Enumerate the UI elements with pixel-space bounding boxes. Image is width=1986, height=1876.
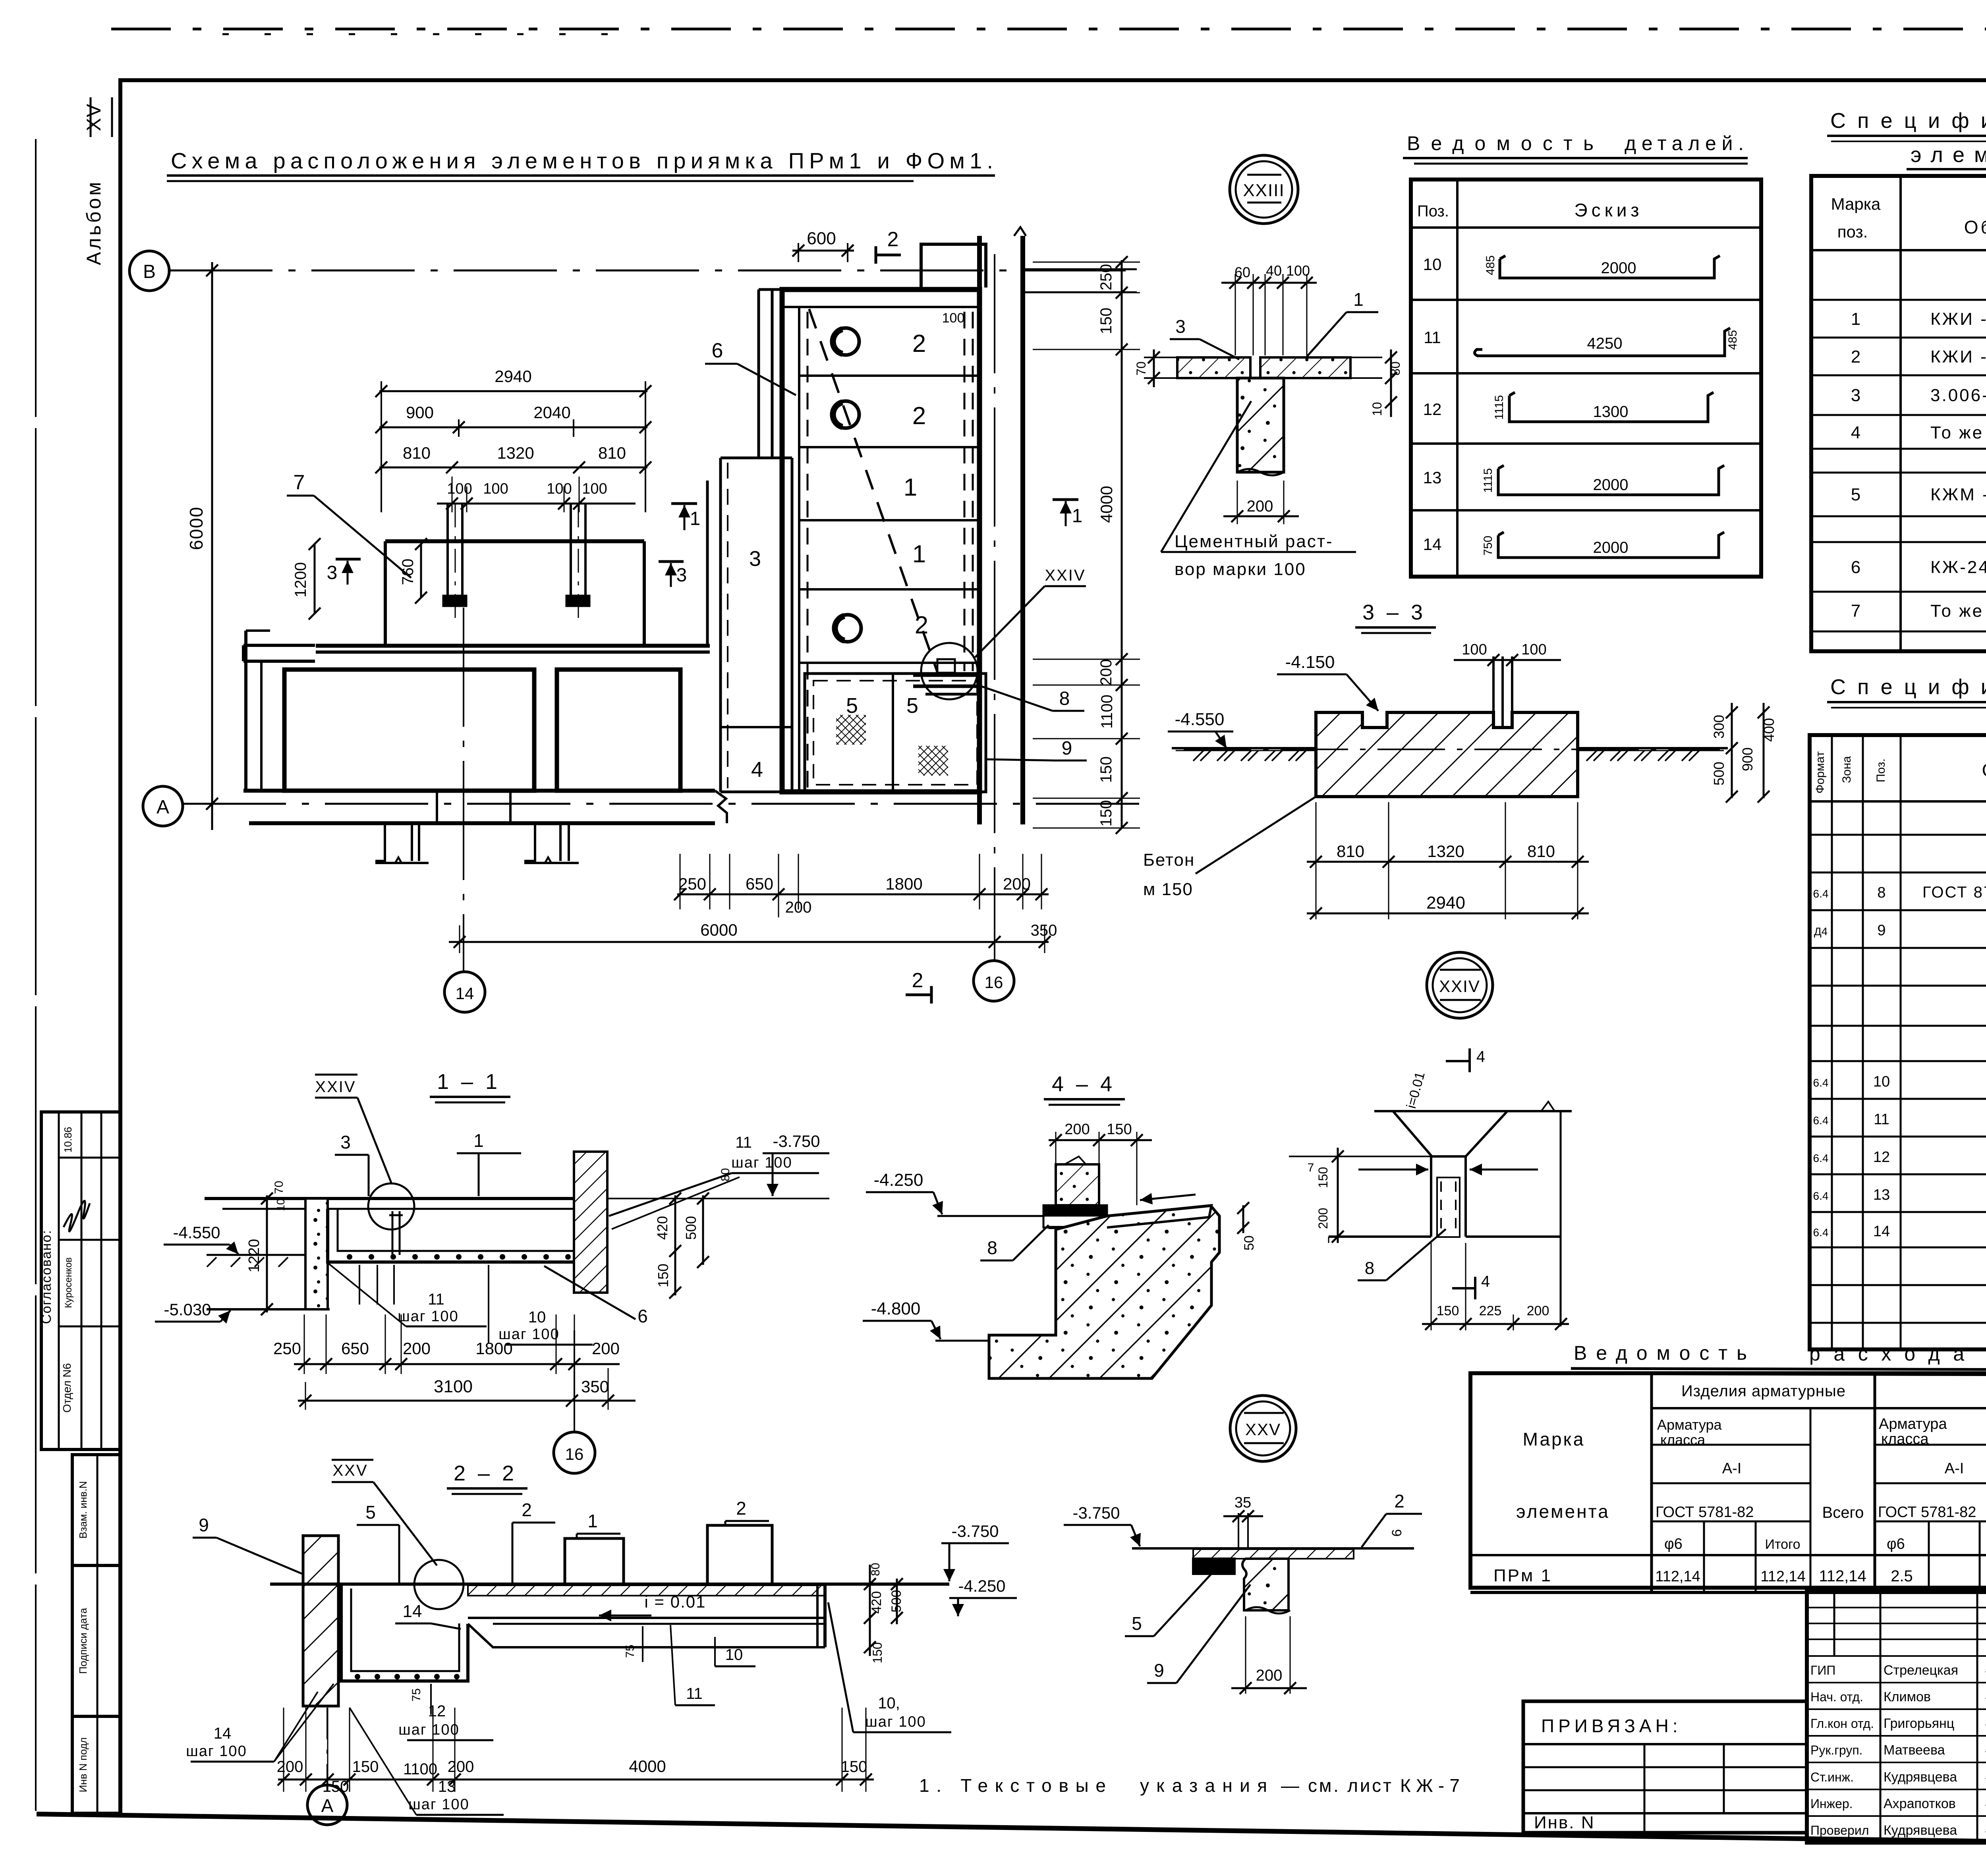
svg-text:80: 80	[869, 1563, 882, 1576]
svg-text:420: 420	[869, 1591, 884, 1614]
svg-text:6.4: 6.4	[1813, 1114, 1829, 1127]
svg-text:10,: 10,	[878, 1695, 900, 1712]
pit rooms 5	[805, 674, 986, 792]
svg-text:250: 250	[273, 1339, 301, 1358]
svg-text:Ст.инж.: Ст.инж.	[1810, 1770, 1854, 1784]
svg-text:вор марки 100: вор марки 100	[1175, 560, 1306, 579]
XXV dim 200	[1245, 1616, 1246, 1694]
svg-text:шаг 100: шаг 100	[731, 1154, 792, 1171]
pit inner dashed lines	[807, 312, 809, 788]
privyazan block	[1523, 1701, 1807, 1833]
svg-text:60: 60	[1234, 264, 1250, 280]
svg-text:1220: 1220	[246, 1239, 263, 1273]
svg-text:100: 100	[1521, 641, 1546, 658]
svg-text:10: 10	[274, 1199, 287, 1211]
mesh patch 2	[918, 746, 948, 776]
1-1 left wall	[305, 1199, 328, 1309]
svg-text:2040: 2040	[533, 403, 570, 422]
plan bottom foundation band	[243, 789, 715, 793]
svg-text:150: 150	[655, 1264, 671, 1287]
svg-text:1: 1	[1353, 289, 1364, 310]
1-1 floor slab	[205, 1197, 588, 1200]
svg-text:3 – 3: 3 – 3	[1362, 600, 1426, 624]
1-1 right dims	[674, 1195, 676, 1295]
XXIV bottom lines	[1329, 1235, 1431, 1238]
svg-text:1115: 1115	[1493, 395, 1506, 420]
svg-text:13: 13	[1873, 1187, 1890, 1203]
svg-text:150: 150	[1107, 1121, 1132, 1138]
svg-text:2000: 2000	[1593, 476, 1629, 494]
svg-text:485: 485	[1484, 255, 1497, 275]
svg-text:КЖИ - ПП2: КЖИ - ПП2	[1930, 347, 1986, 367]
svg-text:810: 810	[1527, 842, 1555, 861]
plan room 1	[284, 670, 534, 791]
XXIV top line	[1374, 1110, 1572, 1112]
axis A circle	[143, 786, 183, 826]
spec table 1 frame	[1811, 176, 1986, 651]
svg-text:А-I: А-I	[1722, 1460, 1742, 1477]
svg-text:1300: 1300	[1593, 403, 1629, 421]
svg-text:XXIII: XXIII	[1243, 181, 1285, 200]
svg-text:150: 150	[1097, 757, 1115, 783]
svg-text:1800: 1800	[475, 1339, 512, 1358]
title block frame	[1807, 1592, 1986, 1843]
1-1 callout circle	[368, 1183, 414, 1229]
svg-text:Ведомость: Ведомость	[1574, 1342, 1747, 1364]
svg-text:70: 70	[1134, 361, 1148, 376]
svg-text:112,14: 112,14	[1655, 1568, 1700, 1585]
svg-text:В: В	[143, 261, 156, 282]
svg-text:-4.250: -4.250	[874, 1170, 923, 1190]
1-1 bottom dims	[304, 1314, 305, 1374]
svg-text:5: 5	[846, 694, 858, 718]
svg-text:4: 4	[1851, 423, 1860, 442]
plan left T-wall	[243, 644, 315, 647]
svg-text:11: 11	[1424, 328, 1441, 347]
svg-text:поз.: поз.	[1837, 222, 1868, 241]
svg-text:100: 100	[582, 481, 607, 497]
3-3 ground line	[1172, 747, 1316, 749]
svg-text:2000: 2000	[1593, 539, 1629, 556]
spec table 2 frame	[1810, 735, 1986, 1349]
svg-text:4: 4	[1481, 1273, 1490, 1290]
svg-text:ГОСТ 5781-82: ГОСТ 5781-82	[1656, 1504, 1754, 1521]
svg-text:500: 500	[683, 1216, 699, 1240]
steel table horizontals	[1652, 1407, 1986, 1409]
svg-text:200: 200	[403, 1339, 431, 1358]
svg-text:1: 1	[690, 508, 701, 529]
svg-text:Цементный раст-: Цементный раст-	[1175, 532, 1333, 551]
svg-text:Проверил: Проверил	[1810, 1823, 1869, 1837]
svg-text:3: 3	[1851, 386, 1860, 405]
svg-text:6.4: 6.4	[1813, 1152, 1829, 1164]
svg-text:100: 100	[1462, 641, 1487, 658]
svg-text:Поз.: Поз.	[1874, 759, 1887, 782]
right thick wall	[977, 236, 982, 824]
svg-text:6000: 6000	[186, 506, 207, 550]
2-2 right dims	[869, 1565, 871, 1656]
2-2 left wall hatched	[303, 1536, 338, 1706]
2-2 bottom dims	[283, 1708, 284, 1792]
svg-text:Арматура: Арматура	[1879, 1416, 1947, 1432]
svg-text:100: 100	[547, 481, 572, 497]
svg-text:класса: класса	[1881, 1431, 1929, 1448]
dim 760 rotated	[420, 544, 422, 598]
svg-text:70: 70	[272, 1181, 286, 1194]
strip room 3-4	[719, 458, 722, 792]
svg-text:6000: 6000	[700, 921, 737, 939]
svg-text:Инв. N: Инв. N	[1534, 1813, 1595, 1832]
svg-text:см. лист: см. лист	[1308, 1775, 1391, 1796]
plan upper room walls	[385, 539, 644, 543]
svg-text:Ведомость: Ведомость	[1407, 132, 1594, 154]
svg-text:150: 150	[1097, 800, 1115, 827]
svg-text:485: 485	[1726, 330, 1739, 350]
svg-text:200: 200	[448, 1758, 474, 1776]
svg-text:1: 1	[904, 474, 917, 501]
svg-text:6: 6	[1851, 558, 1860, 577]
svg-text:Эскиз: Эскиз	[1575, 200, 1643, 220]
svg-text:8: 8	[1059, 688, 1070, 709]
svg-text:Взам. инв.N: Взам. инв.N	[77, 1481, 89, 1539]
svg-text:350: 350	[581, 1377, 609, 1396]
svg-text:класса: класса	[1660, 1432, 1706, 1448]
svg-text:150: 150	[841, 1758, 867, 1776]
svg-text:м 150: м 150	[1143, 880, 1193, 899]
1-1 left dims	[266, 1195, 268, 1312]
svg-text:200: 200	[1003, 874, 1031, 893]
stamp block Vzam inv N	[72, 1455, 120, 1565]
svg-text:шаг 100: шаг 100	[186, 1743, 247, 1760]
svg-text:6.4: 6.4	[1813, 1077, 1829, 1089]
svg-text:500: 500	[1711, 762, 1727, 786]
stamp block Podpisi data	[72, 1565, 120, 1716]
XXIII dims 60 40 100	[1221, 282, 1317, 284]
3-3 foundation body	[1316, 712, 1578, 797]
svg-text:750: 750	[1482, 536, 1495, 556]
svg-text:2.5: 2.5	[1891, 1567, 1913, 1585]
svg-text:φ6: φ6	[1887, 1536, 1905, 1552]
section flag 2 bottom	[906, 994, 931, 996]
svg-text:-3.750: -3.750	[773, 1132, 820, 1150]
svg-text:i = 0.01: i = 0.01	[645, 1592, 706, 1611]
svg-text:ГОСТ 5781-82: ГОСТ 5781-82	[1878, 1504, 1976, 1521]
plan footing 2	[524, 823, 579, 863]
svg-text:600: 600	[807, 229, 836, 248]
svg-text:4 – 4: 4 – 4	[1052, 1072, 1115, 1096]
2-2 axis 16 circle top	[554, 1432, 595, 1473]
svg-text:Марка: Марка	[1523, 1429, 1585, 1449]
svg-text:Всего: Всего	[1822, 1504, 1864, 1521]
svg-text:6: 6	[1389, 1529, 1404, 1537]
svg-text:5: 5	[1851, 485, 1860, 504]
3-3 pipe dim 100 100	[1454, 659, 1561, 661]
plan right dim chain	[1121, 260, 1123, 828]
XXIV dashed embed	[1437, 1177, 1460, 1237]
svg-text:12: 12	[1423, 400, 1442, 419]
svg-text:6.4: 6.4	[1813, 1190, 1829, 1202]
2-2 floor hatch strip	[468, 1585, 825, 1596]
svg-text:Схема расположения элементов п: Схема расположения элементов приямка ПРм…	[171, 148, 993, 173]
axis 14 vertical	[463, 608, 464, 972]
svg-text:XV: XV	[83, 103, 105, 131]
svg-text:2: 2	[912, 402, 926, 430]
svg-text:3: 3	[676, 565, 687, 586]
svg-text:300: 300	[1711, 715, 1727, 739]
svg-text:Рук.груп.: Рук.груп.	[1810, 1743, 1863, 1757]
svg-text:XXIV: XXIV	[1045, 567, 1086, 584]
svg-text:4250: 4250	[1587, 335, 1623, 352]
svg-text:элемента: элемента	[1516, 1501, 1610, 1522]
svg-text:шаг 100: шаг 100	[408, 1796, 469, 1813]
svg-text:10: 10	[528, 1309, 546, 1326]
svg-text:КЖМ - Мщ6: КЖМ - Мщ6	[1930, 485, 1986, 504]
svg-text:10.86: 10.86	[62, 1127, 74, 1152]
svg-text:7: 7	[1308, 1161, 1314, 1174]
svg-text:11: 11	[1874, 1111, 1889, 1128]
svg-text:ПРм 1: ПРм 1	[1493, 1566, 1552, 1585]
svg-text:Отдел N6: Отдел N6	[61, 1363, 73, 1413]
svg-text:1: 1	[1851, 309, 1860, 329]
2-2 floor bottom	[468, 1617, 825, 1619]
pit hole circles	[832, 328, 859, 355]
svg-text:-3.750: -3.750	[1072, 1504, 1120, 1522]
svg-text:200: 200	[1064, 1121, 1090, 1138]
svg-text:1320: 1320	[1427, 842, 1464, 861]
svg-text:2: 2	[912, 330, 926, 357]
svg-text:Согласовано:: Согласовано:	[39, 1229, 54, 1324]
plan bottom dims	[680, 854, 681, 909]
title block top empty rows	[1807, 1607, 1986, 1608]
svg-text:810: 810	[1337, 842, 1364, 861]
svg-text:1: 1	[912, 540, 926, 568]
svg-text:-4.550: -4.550	[1175, 710, 1225, 729]
plan dim ladder top	[379, 390, 647, 392]
svg-text:10: 10	[1423, 255, 1442, 274]
svg-text:5: 5	[906, 694, 918, 718]
svg-text:4: 4	[1476, 1048, 1485, 1065]
svg-text:2: 2	[736, 1498, 746, 1519]
svg-text:-4.250: -4.250	[958, 1577, 1005, 1595]
svg-text:ГОСТ 8732-78*: ГОСТ 8732-78*	[1922, 884, 1986, 901]
svg-text:650: 650	[341, 1339, 369, 1358]
svg-text:14: 14	[1873, 1223, 1890, 1240]
svg-text:1: 1	[587, 1511, 598, 1531]
axis 16 circle	[974, 961, 1014, 1001]
svg-text:250: 250	[678, 874, 706, 893]
svg-text:9: 9	[199, 1515, 209, 1535]
plan room 2	[557, 670, 680, 791]
svg-text:Изделия арматурные: Изделия арматурные	[1681, 1382, 1846, 1400]
svg-text:-4.550: -4.550	[173, 1223, 220, 1242]
svg-text:810: 810	[598, 444, 626, 462]
axis 16 vertical	[994, 254, 995, 960]
svg-text:2940: 2940	[1426, 893, 1465, 913]
svg-text:2: 2	[1851, 347, 1860, 367]
svg-text:14: 14	[456, 984, 474, 1003]
svg-text:13: 13	[1423, 468, 1442, 487]
svg-text:Марка: Марка	[1831, 195, 1881, 213]
steel table verticals	[1650, 1373, 1653, 1592]
XXIII dim 80 10	[1390, 349, 1392, 417]
svg-text:6.4: 6.4	[1813, 1226, 1829, 1239]
2-2 top slab line	[270, 1583, 342, 1586]
svg-text:16: 16	[985, 973, 1003, 992]
svg-text:Кудрявцева: Кудрявцева	[1884, 1823, 1957, 1838]
2-2 axis A circle	[326, 1708, 328, 1784]
svg-text:75: 75	[410, 1688, 423, 1701]
svg-text:1100: 1100	[1098, 695, 1116, 729]
svg-text:200: 200	[1097, 659, 1115, 686]
3-3 pipe	[1492, 656, 1495, 728]
svg-text:225: 225	[1479, 1303, 1502, 1318]
svg-text:Инв N подл: Инв N подл	[77, 1737, 89, 1792]
svg-text:2000: 2000	[1601, 259, 1636, 277]
svg-text:КЖИ - ПП1: КЖИ - ПП1	[1930, 309, 1986, 329]
svg-text:Стрелецкая: Стрелецкая	[1884, 1663, 1958, 1678]
svg-text:14: 14	[214, 1725, 232, 1742]
svg-text:200: 200	[785, 899, 812, 916]
svg-text:Альбом: Альбом	[83, 179, 105, 265]
top dash-dot trim line	[111, 28, 1986, 31]
svg-text:6: 6	[638, 1306, 648, 1326]
svg-text:-4.150: -4.150	[1285, 652, 1335, 672]
svg-text:10: 10	[1873, 1073, 1890, 1090]
svg-text:4: 4	[751, 758, 763, 782]
svg-text:1100: 1100	[403, 1760, 437, 1778]
XXIV bottom dims	[1422, 1323, 1569, 1325]
svg-text:200: 200	[1256, 1667, 1283, 1684]
svg-text:10: 10	[1370, 402, 1384, 416]
pit left outer wall piece	[757, 290, 760, 458]
pit dashed diagonal	[809, 309, 939, 676]
svg-text:Подписи дата: Подписи дата	[77, 1608, 89, 1674]
svg-text:XXV: XXV	[1245, 1420, 1281, 1439]
svg-text:Ахрапотков: Ахрапотков	[1884, 1796, 1956, 1811]
XXIII pier	[1237, 378, 1284, 472]
sketch pos 11 bar	[1474, 328, 1730, 356]
svg-text:1200: 1200	[292, 562, 309, 598]
svg-text:200: 200	[1316, 1208, 1330, 1229]
svg-text:3: 3	[340, 1132, 351, 1152]
svg-text:75: 75	[624, 1644, 637, 1658]
svg-text:900: 900	[406, 403, 434, 422]
svg-text:Поз.: Поз.	[1417, 203, 1449, 220]
svg-text:1115: 1115	[1482, 468, 1495, 493]
svg-text:Формат: Формат	[1814, 751, 1827, 793]
wall top rectangle	[921, 244, 986, 288]
svg-text:9: 9	[1877, 922, 1886, 939]
svg-text:Арматура: Арматура	[1657, 1417, 1722, 1433]
XXIII dim 70	[1153, 349, 1155, 387]
2-2 callout circle	[414, 1560, 464, 1609]
details table frame	[1411, 179, 1761, 577]
svg-text:150: 150	[1437, 1303, 1459, 1318]
stamp signature	[64, 1201, 90, 1231]
svg-text:А: А	[156, 797, 169, 818]
svg-text:2: 2	[522, 1500, 532, 1520]
1-1 trough	[328, 1209, 584, 1262]
svg-text:9: 9	[1062, 738, 1072, 759]
svg-text:шаг 100: шаг 100	[865, 1714, 926, 1730]
1-1 right wall	[574, 1152, 607, 1293]
svg-text:Инжер.: Инжер.	[1810, 1797, 1853, 1811]
svg-text:Григорьянц: Григорьянц	[1884, 1716, 1954, 1731]
svg-text:650: 650	[746, 874, 773, 893]
svg-text:2: 2	[887, 228, 899, 251]
XXIV funnel	[1393, 1111, 1507, 1156]
sketch pos 10 channel bar	[1500, 256, 1720, 278]
svg-text:4000: 4000	[629, 1757, 666, 1776]
4-4 upper wall	[1056, 1164, 1099, 1205]
svg-text:12: 12	[1873, 1149, 1890, 1166]
svg-text:200: 200	[592, 1339, 620, 1358]
svg-text:760: 760	[399, 559, 417, 585]
svg-text:3: 3	[1175, 316, 1186, 337]
svg-text:400: 400	[1761, 718, 1777, 742]
svg-text:XXIV: XXIV	[1439, 977, 1480, 996]
4-4 concrete mass	[989, 1206, 1219, 1378]
svg-text:шаг 100: шаг 100	[398, 1308, 458, 1325]
plan column T2	[570, 504, 572, 600]
XXV detail slab	[1132, 1547, 1414, 1550]
svg-text:1 – 1: 1 – 1	[437, 1070, 500, 1094]
XXV embed panel	[1193, 1559, 1234, 1574]
4-4 embed plate	[1043, 1205, 1107, 1216]
sketch pos 14 channel bar	[1498, 532, 1724, 558]
svg-text:2: 2	[912, 969, 923, 992]
svg-text:-5.030: -5.030	[164, 1300, 211, 1319]
title block signature rows	[1807, 1682, 1986, 1683]
XXIII right slab	[1260, 357, 1350, 378]
svg-text:3100: 3100	[434, 1377, 473, 1396]
section flag 2 top	[876, 254, 901, 257]
svg-text:80: 80	[719, 1168, 732, 1181]
cement mortar note	[1161, 401, 1251, 552]
svg-text:2 – 2: 2 – 2	[454, 1461, 517, 1485]
4-4 dims 200 150	[1049, 1139, 1152, 1141]
title block signature columns	[1833, 1592, 1835, 1656]
svg-text:150: 150	[1097, 308, 1115, 334]
XXIII dim 200	[1237, 481, 1238, 524]
svg-text:1320: 1320	[497, 444, 534, 462]
svg-text:900: 900	[1739, 747, 1756, 771]
svg-text:То же: То же	[1930, 601, 1984, 621]
svg-text:350: 350	[1031, 922, 1057, 939]
left sheet edge line	[35, 139, 37, 1811]
svg-text:200: 200	[1247, 498, 1273, 515]
2-2 pit box	[341, 1584, 468, 1681]
svg-text:500: 500	[889, 1590, 904, 1613]
svg-text:XXV: XXV	[332, 1462, 368, 1479]
svg-text:11: 11	[735, 1134, 752, 1151]
svg-text:35: 35	[1234, 1494, 1251, 1511]
svg-text:XXIV: XXIV	[315, 1078, 356, 1096]
axis B line	[169, 270, 1140, 272]
svg-text:100: 100	[483, 481, 508, 497]
section mark 3 left	[336, 558, 361, 561]
svg-text:Климов: Климов	[1884, 1689, 1931, 1704]
svg-text:1800: 1800	[885, 874, 922, 893]
svg-text:-3.750: -3.750	[951, 1522, 999, 1540]
svg-text:420: 420	[654, 1216, 670, 1240]
svg-text:Куросенков: Куросенков	[63, 1257, 74, 1308]
svg-text:3: 3	[749, 547, 761, 571]
svg-text:6: 6	[712, 339, 723, 362]
svg-text:-4.800: -4.800	[871, 1299, 921, 1318]
3-3 bottom dims	[1316, 802, 1317, 919]
svg-text:80: 80	[1388, 361, 1403, 376]
